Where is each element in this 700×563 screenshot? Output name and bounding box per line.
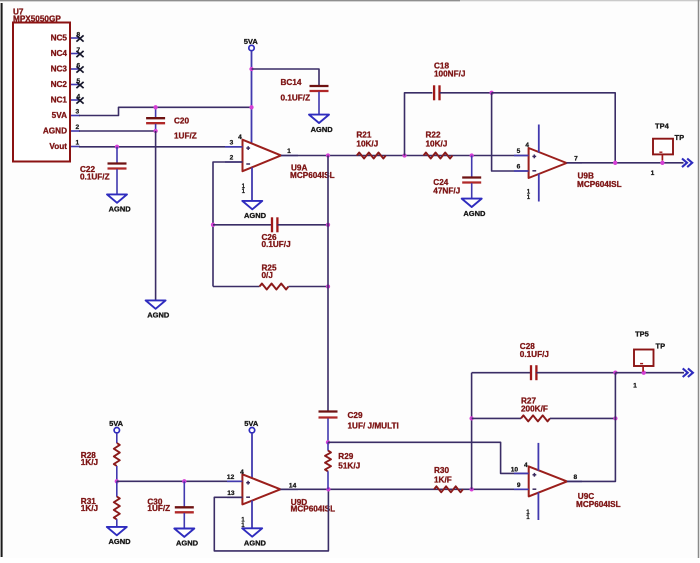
svg-text:NC1: NC1 xyxy=(51,96,68,105)
svg-text:0.1UF/J: 0.1UF/J xyxy=(262,240,291,249)
wire C18 node to U9B output xyxy=(492,93,616,163)
svg-text:13: 13 xyxy=(227,490,235,497)
svg-text:2: 2 xyxy=(75,124,79,131)
svg-text:1: 1 xyxy=(75,140,79,147)
resistor R28 1K/J xyxy=(81,433,120,481)
svg-text:1UF/Z: 1UF/Z xyxy=(174,132,197,141)
wire U9B output net to off-page arrow xyxy=(567,162,684,164)
svg-text:MCP604ISL: MCP604ISL xyxy=(577,180,622,189)
op-amp U9A MCP604ISL xyxy=(243,140,335,181)
capacitor C18 100NF/J feedback xyxy=(405,62,492,156)
test point TP4 xyxy=(651,121,684,177)
capacitor C30 1UF/Z xyxy=(147,481,193,528)
wire U9A output net to U9B pin 5 xyxy=(281,155,529,157)
svg-text:NC5: NC5 xyxy=(51,34,68,43)
test point TP5 xyxy=(633,329,665,389)
U9D pin 4 label xyxy=(240,469,244,476)
junction R27 right on output rail xyxy=(613,416,617,420)
svg-text:AGND: AGND xyxy=(244,211,267,220)
svg-text:5VA: 5VA xyxy=(109,419,124,428)
svg-text:TP: TP xyxy=(656,341,666,350)
wire divider node to U9D pin 12 xyxy=(117,480,243,482)
wire AGND vertical to lower AGND symbol xyxy=(155,131,157,300)
off-page connector arrow (U9C output) xyxy=(683,368,693,377)
U9A pin 3 non-inverting input stub xyxy=(225,139,243,146)
U9B pin 4 label and supply stub xyxy=(525,125,538,153)
U7 pin 5 NC2 stub with no-connect X xyxy=(71,78,84,88)
U9B pin 5 non-inverting input stub xyxy=(514,148,529,155)
svg-text:5VA: 5VA xyxy=(52,111,67,120)
svg-text:AGND: AGND xyxy=(109,205,132,214)
U9C pin 10 non-inverting input stub xyxy=(511,466,529,473)
svg-text:100NF/J: 100NF/J xyxy=(434,70,465,79)
junction 5VA rail / U7 supply wire xyxy=(249,105,253,109)
svg-text:MCP604ISL: MCP604ISL xyxy=(576,500,621,509)
ground AGND below C20 line xyxy=(146,300,170,319)
resistor R30 1K/F xyxy=(434,466,463,492)
svg-text:AGND: AGND xyxy=(244,539,267,548)
wire U9C output up to feedback rail xyxy=(567,373,615,482)
U9B pin 7 output stub xyxy=(567,155,582,163)
svg-text:1UF/ J/MULTI: 1UF/ J/MULTI xyxy=(348,421,399,430)
ground AGND below R31 xyxy=(107,527,131,546)
wire U9C feedback rail (left side) xyxy=(471,373,473,490)
U7 pin 6 NC3 stub with no-connect X xyxy=(71,63,84,73)
U7 pin 8 NC5 stub with no-connect X xyxy=(71,32,84,42)
svg-text:0.1UF/J: 0.1UF/J xyxy=(520,350,549,359)
junction R28/R31 divider node xyxy=(115,479,119,483)
svg-text:10K/J: 10K/J xyxy=(426,140,448,149)
junction R22 right / C24 tap xyxy=(470,153,474,157)
power 5VA above U9A xyxy=(244,37,259,51)
wire Vout net from U7 pin 1 to U9A pin 3 xyxy=(79,146,243,148)
junction R30 right / U9C feedback node xyxy=(469,487,473,491)
junction TP4 tap xyxy=(660,161,664,165)
wire U9D pin 11 to AGND xyxy=(251,501,253,529)
svg-text:4: 4 xyxy=(524,462,528,469)
svg-text:TP: TP xyxy=(675,133,685,142)
svg-text:0.1UF/Z: 0.1UF/Z xyxy=(80,172,110,181)
svg-text:0/J: 0/J xyxy=(262,271,273,280)
U9D pin 13 inverting input stub xyxy=(227,490,242,497)
svg-text:2: 2 xyxy=(230,155,234,162)
op-amp U9C MCP604ISL xyxy=(529,466,621,509)
svg-text:TP4: TP4 xyxy=(655,121,670,130)
IC U7 MPX5050GP pressure sensor body xyxy=(13,8,70,162)
svg-text:TP5: TP5 xyxy=(635,329,649,338)
U9A pin 4 label xyxy=(238,134,242,141)
svg-text:9: 9 xyxy=(517,482,521,489)
resistor R25 0/J xyxy=(213,264,328,290)
svg-text:7: 7 xyxy=(574,155,578,162)
U9D pin 14 output stub xyxy=(280,482,298,489)
ground AGND below U9D xyxy=(242,528,266,547)
wire C18 node down to U9B pin 6 xyxy=(492,93,529,171)
wire 5VA rail down to U9A pin 4 xyxy=(251,51,253,148)
svg-text:R22: R22 xyxy=(426,131,441,140)
svg-text:AGND: AGND xyxy=(463,209,486,218)
svg-text:1UF/Z: 1UF/Z xyxy=(147,504,170,513)
svg-text:3: 3 xyxy=(230,139,234,146)
junction R21/R22 node to C18 xyxy=(402,153,406,157)
junction C26 right on output rail xyxy=(326,223,330,227)
U9A pin 11 label xyxy=(242,183,246,195)
svg-text:AGND: AGND xyxy=(43,127,67,136)
capacitor C28 0.1UF/J xyxy=(472,342,616,380)
wire AGND net from U7 pin 2 to C20 bottom xyxy=(79,130,156,132)
wire U9D output net to U9C pin 9 xyxy=(280,488,528,490)
svg-text:NC2: NC2 xyxy=(51,80,68,89)
svg-text:1K/J: 1K/J xyxy=(81,458,98,467)
svg-text:8: 8 xyxy=(573,474,577,481)
junction C26 left xyxy=(211,223,215,227)
svg-text:10: 10 xyxy=(511,466,519,473)
U9B pin 11 label and stub xyxy=(527,174,539,202)
svg-text:4: 4 xyxy=(238,134,242,141)
resistor R27 200K/F xyxy=(472,397,616,422)
svg-text:AGND: AGND xyxy=(147,311,170,320)
junction U9A output / feedback rail xyxy=(326,153,330,157)
junction feedback tap on U9B output xyxy=(613,161,617,165)
junction R25 right on output rail xyxy=(326,284,330,288)
U9C pin 11 label and stub xyxy=(526,492,538,521)
U7 pin 3 5VA stub xyxy=(71,109,80,116)
U9D pin 12 non-inverting input stub xyxy=(227,474,242,481)
junction U9D output / R29 / feedback xyxy=(326,487,330,491)
svg-text:1: 1 xyxy=(633,383,637,390)
svg-text:0.1UF/Z: 0.1UF/Z xyxy=(281,93,311,102)
svg-text:3: 3 xyxy=(75,109,79,116)
wire U9D pin 13 feedback loop xyxy=(214,489,328,551)
ground AGND below C30 xyxy=(174,529,198,548)
wire 5VA net from U7 pin 3 to U9A supply rail xyxy=(79,107,252,115)
junction R27 left tap xyxy=(469,416,473,420)
svg-text:5VA: 5VA xyxy=(244,37,259,46)
U9B pin 6 inverting input stub xyxy=(514,164,529,171)
junction BC14 tap on 5VA rail xyxy=(249,67,253,71)
svg-text:14: 14 xyxy=(289,482,297,489)
junction C29 bottom / R29 top node xyxy=(326,440,330,444)
ground AGND below C22 xyxy=(107,194,131,213)
capacitor C20 1UF/Z xyxy=(146,107,197,140)
power 5VA above U9D xyxy=(244,419,259,433)
svg-text:47NF/J: 47NF/J xyxy=(433,187,460,196)
resistor R22 10K/J xyxy=(424,131,453,159)
svg-text:10K/J: 10K/J xyxy=(356,140,378,149)
junction C20 bottom / AGND net xyxy=(153,129,157,133)
svg-text:12: 12 xyxy=(227,474,235,481)
junction C30 tap xyxy=(182,479,186,483)
svg-text:AGND: AGND xyxy=(176,539,199,548)
U9A pin 1 output stub xyxy=(281,148,298,156)
svg-text:51K/J: 51K/J xyxy=(338,462,360,471)
U9A pin 2 inverting input stub xyxy=(225,155,243,162)
resistor R31 1K/J xyxy=(81,481,120,527)
svg-text:MPX5050GP: MPX5050GP xyxy=(13,15,61,24)
svg-text:AGND: AGND xyxy=(108,537,131,546)
svg-text:1: 1 xyxy=(287,148,291,155)
svg-text:R30: R30 xyxy=(434,466,449,475)
capacitor C24 47NF/J xyxy=(433,156,481,199)
U9C pin 8 output stub xyxy=(567,474,582,482)
U9D pin 11 label xyxy=(241,517,245,529)
ground AGND below BC14 xyxy=(309,115,333,134)
svg-text:1K/F: 1K/F xyxy=(434,475,452,484)
svg-text:4: 4 xyxy=(240,469,244,476)
svg-text:5VA: 5VA xyxy=(244,419,259,428)
svg-text:C20: C20 xyxy=(174,116,189,125)
junction C28 right / U9C output rail xyxy=(613,371,617,375)
U7 pin 1 Vout stub xyxy=(71,140,80,147)
off-page connector arrow (U9B output) xyxy=(682,159,692,168)
wire U9A pin 2 feedback branch xyxy=(213,162,243,287)
svg-text:5: 5 xyxy=(517,148,521,155)
ground AGND below C24 xyxy=(462,199,486,218)
junction C22 tap on Vout net xyxy=(115,145,119,149)
U7 pin 2 AGND stub xyxy=(71,124,80,131)
wire U9A pin 11 to AGND xyxy=(251,168,253,201)
junction TP5 tap xyxy=(642,371,646,375)
svg-text:C29: C29 xyxy=(348,411,363,420)
wire TP5 output net to off-page arrow xyxy=(615,372,684,374)
svg-text:Vout: Vout xyxy=(49,142,67,151)
U9C pin 4 label and supply stub xyxy=(524,443,538,471)
svg-text:NC4: NC4 xyxy=(51,49,68,58)
U7 pin 7 NC4 stub with no-connect X xyxy=(71,47,84,57)
capacitor C29 1UF/ J/MULTI xyxy=(319,411,399,442)
wire C29/R29 node to U9C pin 10 xyxy=(328,442,529,473)
op-amp U9D MCP604ISL xyxy=(242,474,335,513)
U7 pin 4 NC1 stub with no-connect X xyxy=(71,94,84,104)
wire feedback rail down to C29 xyxy=(327,156,329,412)
svg-text:AGND: AGND xyxy=(311,125,334,134)
svg-text:1: 1 xyxy=(651,170,655,177)
svg-text:200K/F: 200K/F xyxy=(521,405,548,414)
junction C20 top / 5VA net xyxy=(153,105,157,109)
svg-text:R21: R21 xyxy=(356,131,371,140)
U9C pin 9 inverting input stub xyxy=(514,482,529,489)
svg-text:4: 4 xyxy=(525,142,529,149)
svg-text:NC3: NC3 xyxy=(51,65,68,74)
svg-text:6: 6 xyxy=(517,164,521,171)
svg-text:R29: R29 xyxy=(338,452,353,461)
power 5VA above R28 xyxy=(109,419,124,433)
resistor R29 51K/J xyxy=(325,442,360,489)
ground AGND below U9A xyxy=(242,201,266,220)
junction C18 right / U9B pin 6 branch xyxy=(489,91,493,95)
svg-text:BC14: BC14 xyxy=(281,78,302,87)
wire 5VA down to U9D pin 4 xyxy=(251,433,253,479)
capacitor C26 0.1UF/J xyxy=(213,217,328,249)
capacitor C22 0.1UF/Z xyxy=(80,147,127,195)
capacitor BC14 0.1UF/Z decoupling xyxy=(252,69,329,115)
resistor R21 10K/J xyxy=(356,131,385,159)
op-amp U9B MCP604ISL xyxy=(529,148,622,189)
svg-text:1K/J: 1K/J xyxy=(81,504,98,513)
